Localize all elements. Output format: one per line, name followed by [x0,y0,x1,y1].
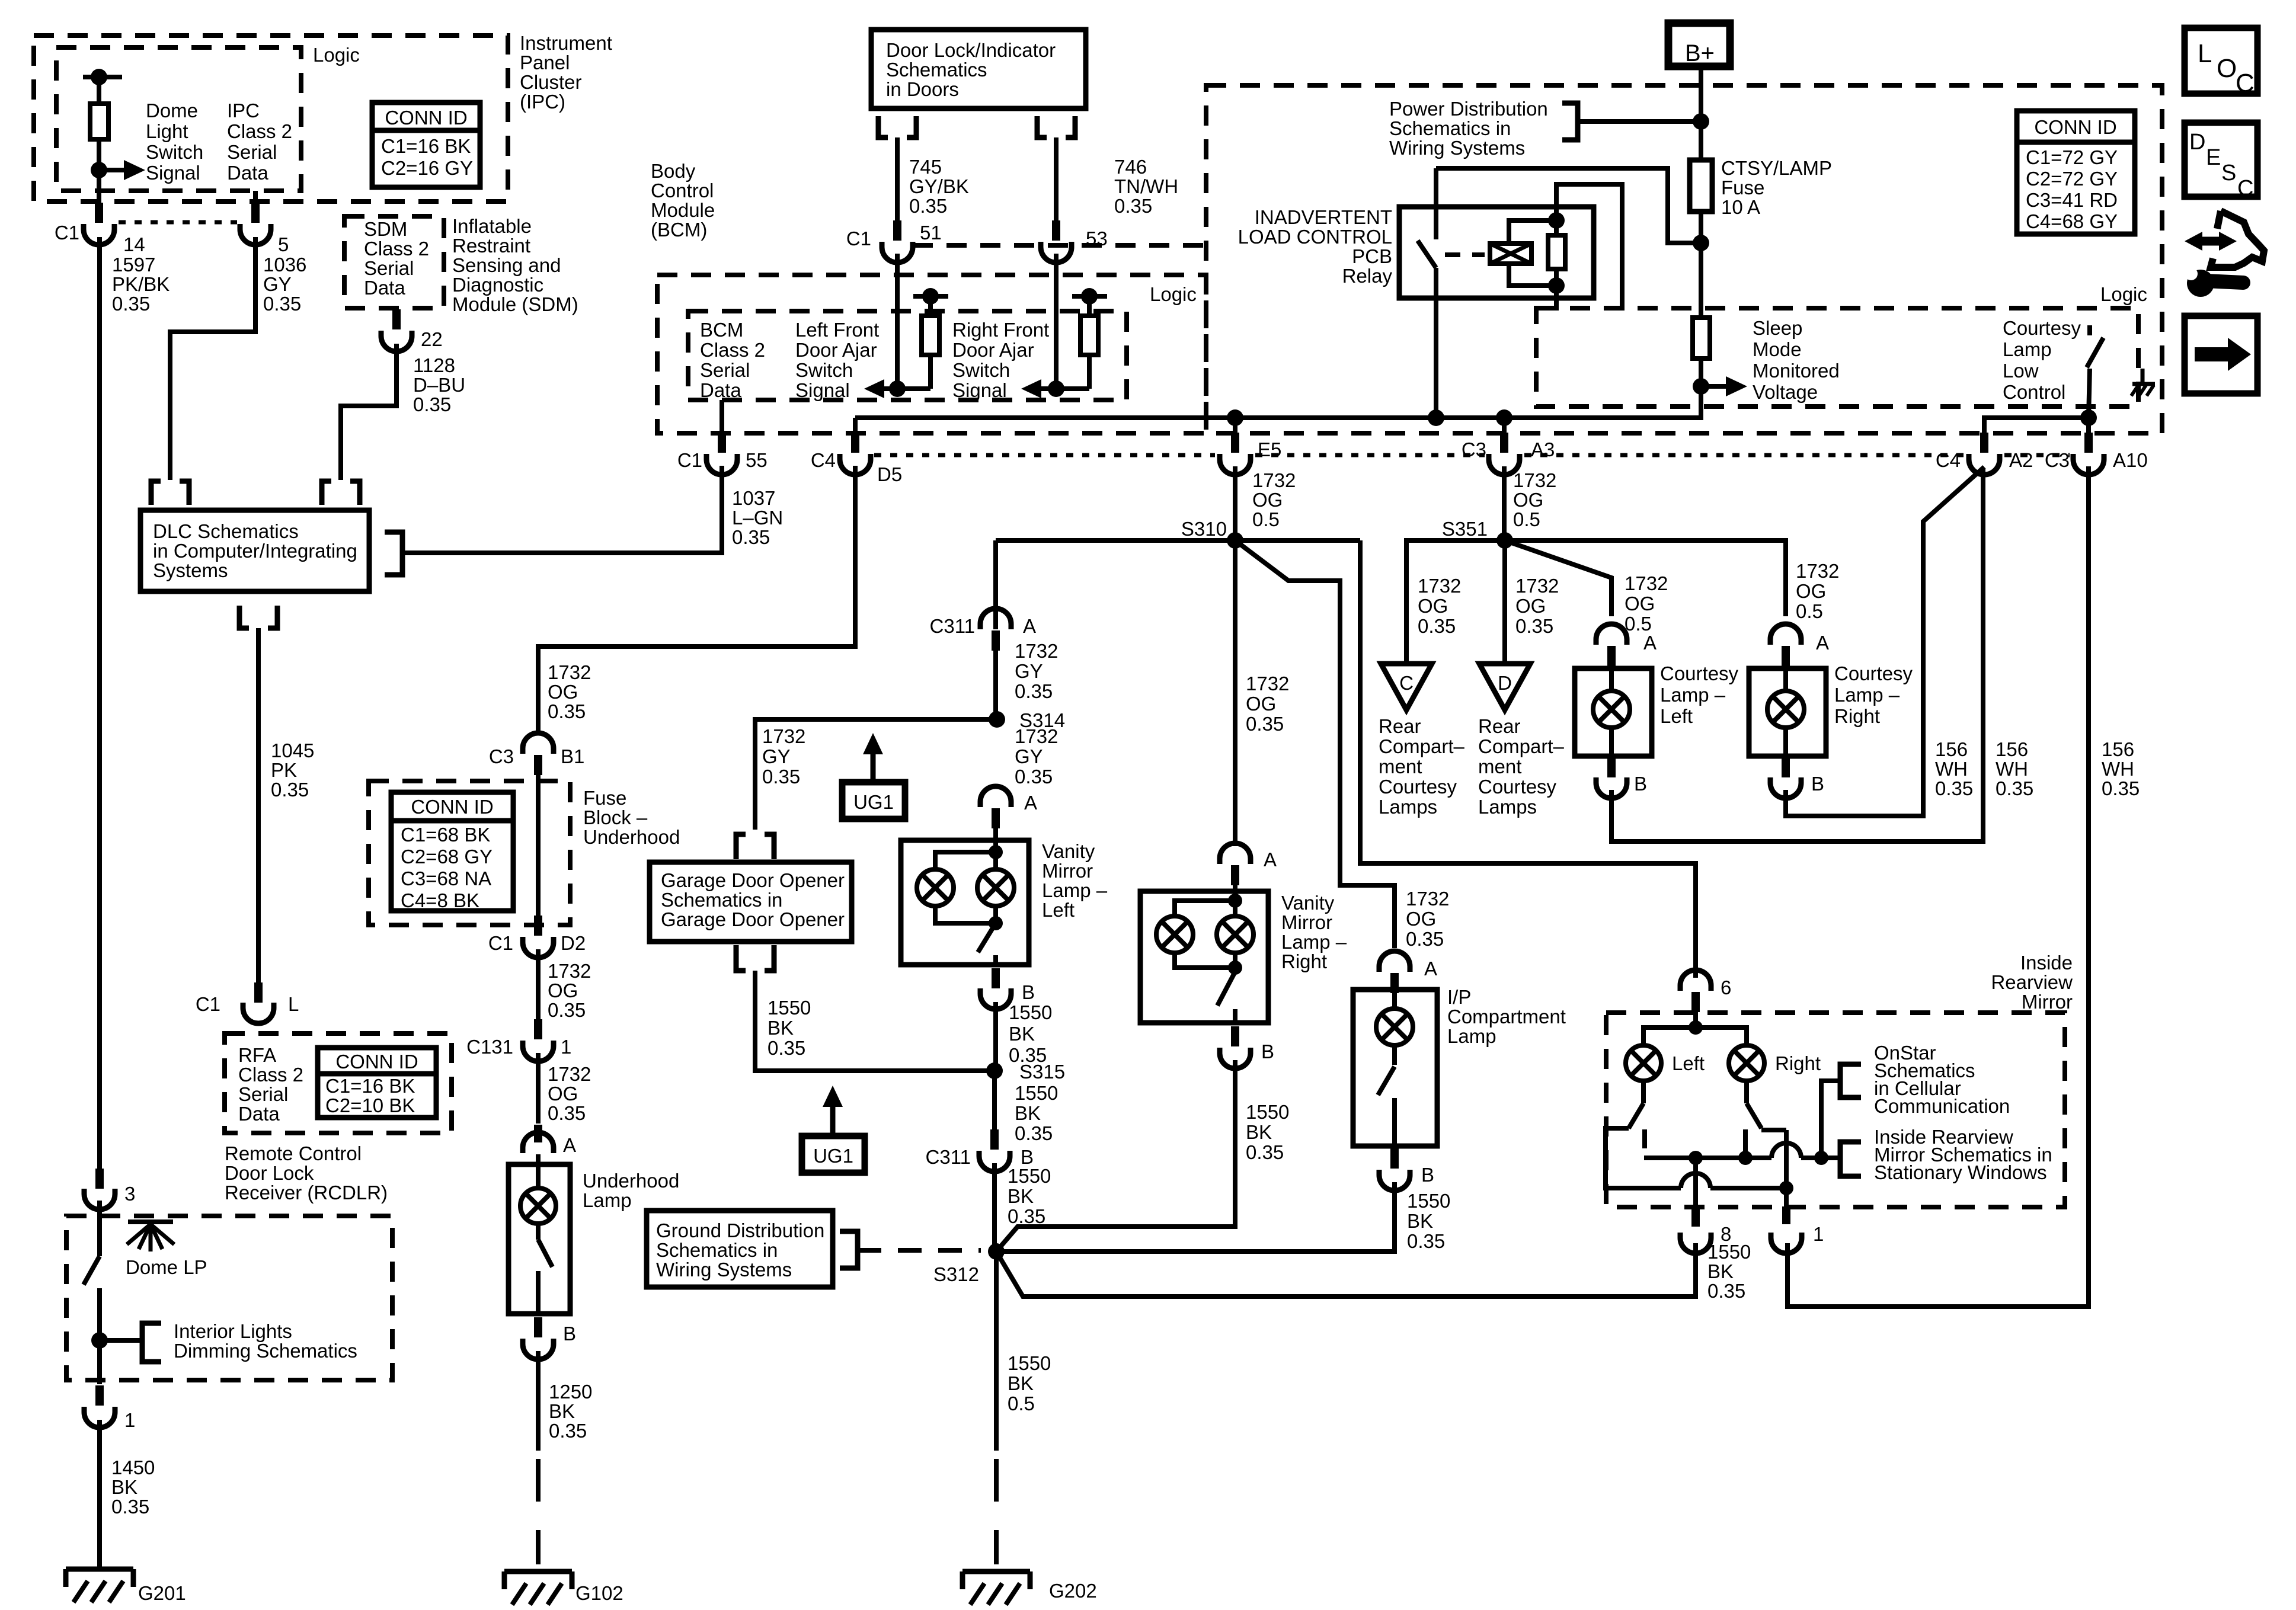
svg-text:Dome: Dome [146,100,198,121]
node S351 splice [1496,532,1513,549]
module box: inside rearview mirror dashed [1606,1013,2065,1207]
component box UG1 lower [802,1136,865,1173]
svg-text:C1: C1 [846,228,871,249]
svg-text:S310: S310 [1181,518,1227,540]
connector C1 pin L (RCDLR) [254,982,263,1003]
svg-text:BK: BK [1009,1023,1035,1045]
connector A vanity mirror right [1220,843,1251,864]
connector B courtesy lamp right [1782,758,1790,777]
svg-text:1550: 1550 [1008,1165,1051,1187]
wire S312 down to G202 [994,1251,999,1451]
svg-text:1732: 1732 [548,661,591,683]
svg-text:CONN ID: CONN ID [2034,116,2116,138]
svg-text:C1: C1 [196,993,220,1015]
svg-text:Mirror: Mirror [1281,911,1332,933]
svg-text:C: C [2237,176,2253,201]
svg-text:D: D [1498,672,1512,694]
svg-text:C311: C311 [930,615,975,637]
icon box LOC [2185,28,2257,94]
arrow sleep mode monitored voltage [1701,384,1729,389]
svg-text:INADVERTENT: INADVERTENT [1255,206,1392,228]
connector pin 22 (SDM) [392,309,401,329]
dotted connector face line BCM bottom [874,453,1215,457]
svg-text:1: 1 [1813,1223,1824,1245]
wire S312 lower branch to mirror pin 8 [996,1243,1696,1297]
svg-text:(BCM): (BCM) [651,219,707,241]
svg-text:Left: Left [1042,899,1075,921]
component box courtesy lamp left [1575,668,1652,756]
svg-text:C1=16 BK: C1=16 BK [381,135,471,157]
svg-text:C3=41 RD: C3=41 RD [2026,189,2118,211]
module box: BCM outer dashed [657,275,1206,433]
lamp underhood [536,1154,541,1188]
svg-text:Relay: Relay [1342,265,1393,287]
svg-text:A: A [1264,849,1277,870]
svg-text:C4=68 GY: C4=68 GY [2026,210,2118,232]
svg-text:Logic: Logic [313,44,360,66]
svg-text:Lamp –: Lamp – [1042,879,1108,901]
svg-text:1732: 1732 [1418,575,1461,597]
svg-text:Serial: Serial [364,257,414,279]
svg-text:1550: 1550 [1008,1352,1051,1374]
module box: interior lamps module outer dashed [1206,85,2162,433]
ground G201 [66,1567,133,1572]
wire S351 diagonal to courtesy lamp left [1505,540,1611,616]
svg-text:Fuse: Fuse [583,787,626,809]
arrow UG1 lower [830,1101,836,1136]
svg-text:PK: PK [271,759,297,781]
svg-text:Data: Data [238,1103,280,1125]
wire C131 to underhood lamp A [536,1053,541,1124]
svg-text:BK: BK [1008,1372,1034,1394]
wire dome lamp to pin 1 [97,1340,102,1384]
svg-text:Communication: Communication [1874,1095,2010,1117]
svg-text:0.35: 0.35 [1246,1141,1284,1163]
svg-text:D2: D2 [561,932,586,954]
svg-text:0.35: 0.35 [1515,615,1553,637]
svg-text:0.5: 0.5 [1513,508,1540,530]
node junction dome switch [91,1332,108,1349]
svg-text:Body: Body [651,160,696,182]
svg-text:CTSY/LAMP: CTSY/LAMP [1721,157,1832,179]
svg-text:Serial: Serial [700,359,750,381]
BCM top connector dashed face line [913,243,1203,248]
svg-text:Voltage: Voltage [1753,381,1818,403]
wire 1550 BK from GDO to S315 [755,971,994,1071]
module box: fuse block underhood dashed [369,781,570,925]
wire 1732 OG 0.5 from A3 to S351 [1502,466,1507,540]
svg-text:0.35: 0.35 [1935,777,1973,799]
svg-text:0.35: 0.35 [768,1037,805,1059]
svg-text:OG: OG [1513,489,1543,511]
lamp I/P compartment [1392,987,1397,1009]
svg-text:Mirror: Mirror [2022,991,2073,1013]
module box: RFA dashed [225,1033,452,1133]
ground G202 [962,1569,1030,1574]
svg-text:C2=10 BK: C2=10 BK [325,1094,415,1116]
lamp rearview right [1729,1045,1764,1081]
svg-text:ment: ment [1478,756,1521,777]
svg-text:0.35: 0.35 [1418,615,1456,637]
wire 1250 BK down [536,1351,541,1451]
hop left over pin8 riser [1681,1173,1710,1188]
svg-text:A2: A2 [2009,449,2033,471]
svg-text:L: L [288,993,299,1015]
svg-text:14: 14 [123,233,145,255]
svg-text:C3=68 NA: C3=68 NA [401,868,491,889]
svg-text:0.35: 0.35 [1015,1122,1053,1144]
svg-text:Lamps: Lamps [1478,796,1537,818]
svg-text:BK: BK [1246,1121,1272,1143]
svg-text:0.35: 0.35 [548,1102,586,1124]
connector C1 pin 14 (IPC) [95,203,103,223]
svg-text:Panel: Panel [520,52,570,73]
svg-text:Inside: Inside [2020,952,2073,974]
svg-text:22: 22 [421,328,443,350]
connector B vanity mirror left [992,968,1000,988]
stub contact left [1642,1129,1647,1148]
svg-text:1732: 1732 [762,725,805,747]
lamp rearview left [1626,1045,1661,1081]
svg-text:1732: 1732 [1796,560,1839,582]
wire 1128 D-BU from SDM pin 22 to DLC [341,344,396,480]
vanity right internal wiring [1233,884,1237,901]
svg-text:Class 2: Class 2 [364,238,429,260]
svg-text:O: O [2217,54,2237,83]
svg-text:BK: BK [768,1017,794,1039]
svg-text:Systems: Systems [153,559,228,581]
wire 1036 GY from pin 5 to DLC box [170,237,255,480]
wire S314 to garage door opener [755,719,997,830]
node A10 riser junction [2080,409,2097,426]
relay economizer resistor [1548,235,1565,269]
svg-text:Instrument: Instrument [520,32,612,54]
connector A underhood lamp [523,1132,554,1153]
connector pin 1 rearview mirror [1782,1206,1790,1224]
svg-text:0.5: 0.5 [1008,1393,1035,1414]
svg-text:0.35: 0.35 [2102,777,2140,799]
svg-text:OG: OG [548,1083,578,1105]
svg-text:0.35: 0.35 [1246,713,1284,735]
svg-text:0.35: 0.35 [1114,195,1152,217]
svg-text:S: S [2221,161,2236,185]
svg-text:G102: G102 [575,1582,623,1604]
svg-text:BCM: BCM [700,319,743,341]
icon wrench [2187,270,2214,297]
svg-text:B: B [1261,1041,1274,1062]
svg-text:Restraint: Restraint [452,235,530,257]
svg-text:0.5: 0.5 [1252,508,1280,530]
svg-text:Lamps: Lamps [1379,796,1437,818]
svg-text:in Computer/Integrating: in Computer/Integrating [153,540,357,562]
svg-text:0.35: 0.35 [909,195,947,217]
svg-text:E: E [2206,145,2221,170]
svg-text:A: A [1023,615,1036,637]
svg-text:Data: Data [364,277,405,299]
svg-text:Right: Right [1281,950,1327,972]
svg-text:Sleep: Sleep [1753,317,1802,339]
svg-text:1732: 1732 [1252,469,1296,491]
wire C311-B to S312 [992,1163,997,1251]
wire B+ down to fuse [1699,66,1703,160]
vanity left internal wiring [993,827,998,852]
connector B underhood lamp [534,1317,542,1337]
power B+ feed box [1668,23,1730,66]
svg-text:Signal: Signal [952,379,1007,401]
svg-text:1597: 1597 [112,254,155,276]
svg-text:53: 53 [1086,228,1108,249]
connector B vanity mirror right [1231,1026,1239,1046]
wire IPC serial data to C2 pin 5 [253,191,258,204]
svg-text:C2=16 GY: C2=16 GY [381,157,473,179]
svg-text:Logic: Logic [1150,283,1197,305]
svg-text:Switch: Switch [795,359,853,381]
svg-text:Class 2: Class 2 [227,120,292,142]
reference bracket right of DLC box [385,532,402,575]
lamp vanity left bulb 2 [993,852,998,869]
svg-text:Right Front: Right Front [952,319,1049,341]
arrow UG1 upper [871,748,876,782]
icon box DESC [2185,123,2257,197]
svg-text:1037: 1037 [732,487,775,509]
connector C131 pin 1 [534,1019,542,1039]
riser to OnStar bracket [1821,1081,1839,1158]
svg-text:A3: A3 [1531,438,1555,460]
svg-text:Compart–: Compart– [1379,735,1465,757]
connector pin 6 rearview mirror [1680,970,1711,991]
svg-text:156: 156 [2102,738,2134,760]
svg-text:1128: 1128 [413,354,455,376]
svg-text:156: 156 [1935,738,1968,760]
wire S351 down to D triangle [1502,540,1507,664]
connector pin 8 rearview mirror [1691,1209,1700,1227]
dashed wire to G202 [994,1459,999,1564]
svg-text:Wiring Systems: Wiring Systems [1389,137,1525,159]
svg-text:0.35: 0.35 [1996,777,2033,799]
svg-text:Schematics: Schematics [886,59,987,81]
svg-text:TN/WH: TN/WH [1114,175,1178,197]
svg-text:1550: 1550 [1015,1082,1058,1104]
svg-text:0.35: 0.35 [1707,1280,1745,1302]
svg-text:Courtesy: Courtesy [1834,662,1913,684]
svg-text:A10: A10 [2113,449,2148,471]
svg-text:51: 51 [920,222,942,244]
svg-text:Block –: Block – [583,806,648,828]
svg-text:RFA: RFA [238,1044,276,1066]
connector A vanity mirror left [980,786,1011,807]
svg-text:Sensing and: Sensing and [452,254,561,276]
svg-text:IPC: IPC [227,100,260,121]
node S310 splice [1227,532,1243,549]
svg-text:Rear: Rear [1379,715,1421,737]
svg-text:D–BU: D–BU [413,374,465,396]
rearview right lamp switch [1744,1081,1749,1103]
svg-text:3: 3 [124,1183,135,1205]
svg-text:Cluster: Cluster [520,71,582,93]
logic box inside BCM [688,311,1127,400]
svg-text:A: A [1643,632,1657,654]
chassis ground symbol (logic) [2141,369,2145,384]
dome lamp switch [97,1201,102,1256]
svg-text:C3: C3 [489,745,514,767]
wire through fuse block [536,775,541,916]
svg-text:0.35: 0.35 [271,779,309,801]
svg-text:C1: C1 [488,932,513,954]
svg-text:C1=16 BK: C1=16 BK [325,1075,415,1097]
svg-text:0.35: 0.35 [263,293,301,315]
triangle connector D rear compartment [1479,664,1530,710]
junction right ajar [1048,380,1064,397]
component box vanity mirror lamp left [901,840,1029,965]
svg-text:Serial: Serial [238,1083,288,1105]
svg-text:GY: GY [263,273,292,295]
svg-text:C: C [2236,69,2255,98]
svg-text:OG: OG [1246,693,1276,715]
component box UG1 upper [842,782,905,819]
svg-text:Logic: Logic [2100,283,2147,305]
svg-text:Control: Control [2003,381,2065,403]
svg-text:C131: C131 [466,1036,513,1058]
svg-text:OG: OG [1418,595,1448,617]
svg-text:WH: WH [1935,758,1968,780]
svg-text:C4=8 BK: C4=8 BK [401,889,479,911]
wire sleep tap to internal trace [1699,359,1703,418]
svg-text:Left Front: Left Front [795,319,879,341]
svg-text:0.35: 0.35 [111,1496,149,1518]
svg-text:B: B [1811,773,1824,795]
svg-text:Left: Left [1660,705,1693,727]
component box vanity mirror lamp right [1140,891,1268,1023]
svg-text:S351: S351 [1442,518,1488,540]
svg-text:B: B [563,1323,576,1345]
svg-text:OG: OG [548,980,578,1001]
svg-text:Interior Lights: Interior Lights [174,1320,292,1342]
svg-text:C1=72 GY: C1=72 GY [2026,146,2118,168]
svg-text:Underhood: Underhood [583,826,680,848]
svg-text:BK: BK [111,1476,137,1498]
stub contact right [1743,1129,1748,1158]
svg-text:OG: OG [548,681,578,703]
svg-text:Power Distribution: Power Distribution [1389,98,1548,120]
svg-text:Rear: Rear [1478,715,1521,737]
junction left ajar [889,380,906,397]
wire bus S351 right to courtesy lamp right [1505,540,1786,616]
svg-text:Left: Left [1672,1052,1705,1074]
CONN ID box (interior lamps module) [2017,111,2135,234]
wire BCM class2 to C1-55 [720,400,724,434]
left door ajar switch symbol [913,294,948,299]
svg-text:Wiring Systems: Wiring Systems [656,1259,792,1281]
svg-text:0.35: 0.35 [548,700,586,722]
svg-text:Signal: Signal [795,379,850,401]
svg-text:Remote Control: Remote Control [225,1142,362,1164]
arrow right door ajar switch signal [1038,386,1056,391]
svg-text:Control: Control [651,180,714,201]
reference bracket OnStar [1840,1064,1861,1097]
triangle connector C rear compartment [1381,664,1432,710]
wire C311-A to S314 [993,651,998,719]
node sleep mode voltage tap [1693,378,1709,395]
svg-text:Right: Right [1775,1052,1821,1074]
icon double arrow [2193,237,2228,246]
svg-text:0.35: 0.35 [1407,1230,1445,1252]
module box: Instrument Panel Cluster (IPC) outer dashed [34,36,508,201]
wire S310 branch down to C311-A [993,540,998,629]
node power distribution tap [1693,113,1709,130]
svg-text:0.35: 0.35 [762,766,800,788]
connector pin 5 (IPC) [251,203,260,223]
svg-text:D: D [2189,130,2205,155]
vanity right switch blade [1217,972,1235,1006]
internal trace D5/E5/A3 to sleep-mode line [855,386,1701,418]
svg-text:WH: WH [1996,758,2028,780]
wire resistor return into logic box [1554,286,1559,311]
svg-text:745: 745 [909,156,942,178]
svg-text:BK: BK [1008,1185,1034,1207]
svg-text:PCB: PCB [1352,245,1392,267]
svg-text:B: B [1421,1164,1434,1186]
svg-text:746: 746 [1114,156,1147,178]
svg-text:1732: 1732 [1015,640,1058,662]
svg-text:C1: C1 [55,222,79,244]
svg-text:Lamp: Lamp [583,1189,632,1211]
wire bus S351 left to C triangle [1406,540,1505,664]
fuse CTSY/LAMP 10A [1690,160,1712,212]
svg-text:CONN ID: CONN ID [385,107,467,129]
svg-text:A: A [1816,632,1829,654]
svg-text:1250: 1250 [549,1381,592,1403]
svg-text:Mirror: Mirror [1042,860,1093,882]
connector C3 pin A3 [1502,418,1507,434]
svg-text:OG: OG [1625,593,1655,614]
connector bracket into DLC (1036 wire) [151,481,161,505]
svg-text:Dome LP: Dome LP [126,1256,207,1278]
wire 1045 PK from DLC down to RCDLR [256,628,261,984]
component box Ground Distribution [647,1211,833,1287]
svg-text:Monitored: Monitored [1753,360,1840,382]
svg-text:1550: 1550 [1407,1190,1450,1212]
wire S310 bus corner to rearview mirror pin 6 [1360,540,1696,978]
svg-text:Dimming Schematics: Dimming Schematics [174,1340,357,1362]
svg-text:GY/BK: GY/BK [909,175,969,197]
bracket below garage door opener box [736,945,746,971]
wire coil feed to logic box [1556,184,1622,311]
svg-text:GY: GY [762,745,791,767]
svg-text:0.35: 0.35 [1015,680,1053,702]
svg-text:Class 2: Class 2 [238,1064,303,1086]
connector bracket into DLC (1128 wire) [322,481,331,505]
svg-text:BK: BK [1707,1260,1734,1282]
svg-text:Rearview: Rearview [1991,971,2073,993]
dashed wire to G102 [536,1459,541,1564]
CONN ID box (RCDLR) [318,1048,436,1118]
svg-text:C1=68 BK: C1=68 BK [401,824,490,846]
svg-text:1036: 1036 [263,254,306,276]
svg-text:PK/BK: PK/BK [112,273,170,295]
module box: Dome LP dashed [66,1216,392,1380]
rearview left lamp switch [1641,1081,1646,1103]
svg-text:1732: 1732 [1515,575,1559,597]
bracket into garage door opener box [736,834,746,859]
svg-text:1: 1 [124,1409,135,1431]
right door ajar switch symbol [1072,294,1107,299]
svg-text:Right: Right [1834,705,1880,727]
svg-text:5: 5 [278,233,289,255]
svg-text:Fuse: Fuse [1721,177,1764,199]
svg-text:C2=68 GY: C2=68 GY [401,846,493,868]
svg-text:Schematics in: Schematics in [661,889,782,911]
wire 1450 BK down to G201 [97,1420,102,1569]
